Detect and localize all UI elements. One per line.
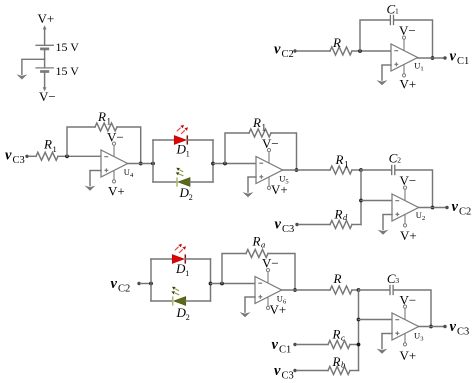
wire (352, 50, 391, 52)
svg-text:15 V: 15 V (56, 64, 80, 78)
wire feedback right (268, 254, 295, 291)
op-amp U2 (392, 186, 419, 227)
op-amp U4 (101, 142, 128, 183)
terminal (25, 155, 28, 158)
terminal (443, 56, 446, 59)
wire noninverting to ground (90, 170, 101, 172)
wire (211, 283, 256, 285)
terminal (293, 49, 296, 52)
wire output (419, 207, 446, 209)
ground (243, 177, 254, 197)
wire feedback right (117, 127, 141, 164)
svg-text:V−: V− (107, 129, 124, 144)
LED D2 (171, 287, 185, 306)
node vC2 output (452, 199, 472, 218)
wire right branch vertical (212, 140, 214, 182)
junction (431, 56, 435, 60)
svg-text:15 V: 15 V (56, 40, 80, 54)
wire noninverting to ground (248, 176, 256, 178)
svg-text:R: R (335, 152, 344, 167)
svg-text:c: c (341, 332, 345, 342)
label Rd (334, 207, 349, 223)
terminal (295, 223, 298, 226)
capacitor C2 (392, 165, 395, 175)
label U6 (277, 293, 287, 305)
resistor R1 feedback (249, 129, 271, 137)
junction (293, 288, 297, 292)
wire output (128, 163, 153, 165)
ground (378, 215, 389, 235)
junction (220, 282, 224, 286)
wire top branch (151, 258, 172, 260)
resistor Ra feedback (246, 250, 268, 258)
label R1 (335, 152, 349, 170)
svg-text:V+: V+ (271, 182, 288, 197)
op-amp U6 (255, 269, 282, 310)
svg-text:1: 1 (420, 65, 423, 72)
label Ra (252, 234, 266, 250)
svg-text:R: R (332, 35, 341, 50)
svg-text:v: v (5, 148, 12, 164)
resistor Rd (330, 221, 352, 229)
wire feedback right (396, 170, 433, 208)
wire feedback left (360, 20, 390, 51)
label D1 (175, 261, 189, 278)
node vC1 output (450, 49, 470, 68)
junction (223, 162, 227, 166)
capacitor C1 (390, 15, 393, 25)
svg-text:2: 2 (422, 215, 425, 222)
terminal (293, 369, 296, 372)
svg-text:v: v (274, 363, 281, 379)
svg-text:v: v (275, 216, 282, 232)
svg-text:2: 2 (189, 193, 193, 202)
junction (357, 343, 361, 347)
wire output (419, 326, 444, 328)
terminal (445, 206, 448, 209)
wire (213, 163, 256, 165)
svg-text:C2: C2 (118, 283, 130, 294)
wire (141, 283, 151, 285)
op-amp U5 (256, 149, 283, 190)
svg-text:v: v (274, 42, 281, 58)
wire (186, 258, 211, 260)
label D2 (179, 185, 193, 202)
wire to inverting input (359, 319, 393, 321)
svg-text:V−: V− (262, 136, 279, 151)
wire bottom branch (151, 300, 173, 302)
wire output (283, 169, 330, 171)
svg-text:R: R (252, 115, 261, 130)
terminal arrow V+ (43, 25, 47, 29)
wire output (282, 289, 330, 291)
svg-text:R: R (334, 207, 343, 222)
wire to capacitor (361, 169, 391, 171)
svg-text:R: R (252, 234, 261, 249)
wire to inverting input (361, 200, 392, 202)
svg-text:V−: V− (400, 292, 417, 307)
wire bottom branch (153, 181, 177, 183)
svg-text:V+: V+ (38, 11, 55, 26)
junction (65, 154, 69, 158)
svg-text:4: 4 (130, 172, 134, 179)
label U1 (414, 60, 423, 72)
svg-text:v: v (450, 319, 457, 335)
wire left branch vertical (152, 140, 154, 182)
svg-text:V−: V− (39, 89, 56, 104)
svg-text:C3: C3 (457, 326, 469, 337)
wire to ground (22, 58, 45, 60)
label U4 (124, 167, 134, 179)
wire feedback left (225, 133, 249, 164)
wire feedback left (222, 254, 246, 284)
svg-text:2: 2 (397, 156, 401, 165)
svg-text:1: 1 (107, 117, 112, 127)
ground (240, 297, 251, 317)
wire noninverting to ground (383, 214, 392, 216)
label D1 (176, 142, 190, 159)
label C1 (387, 1, 400, 16)
label R1 (43, 137, 57, 155)
svg-text:R: R (332, 327, 341, 342)
junction (149, 282, 153, 286)
svg-text:V+: V+ (108, 184, 125, 199)
wire (297, 344, 328, 346)
svg-text:1: 1 (262, 123, 267, 133)
svg-text:V−: V− (399, 23, 416, 38)
ground (377, 65, 388, 85)
node vC2 input (111, 276, 131, 295)
wire (190, 181, 213, 183)
wire right branch vertical (210, 259, 212, 301)
svg-text:C2: C2 (459, 206, 471, 217)
junction (359, 168, 363, 172)
label U2 (416, 210, 425, 222)
op-amp U3 (392, 305, 419, 346)
svg-text:V−: V− (262, 256, 279, 271)
svg-text:1: 1 (53, 144, 57, 154)
node vC3 input (274, 363, 294, 382)
svg-text:C3: C3 (282, 370, 294, 381)
ground (85, 171, 96, 191)
ground (17, 59, 28, 79)
svg-text:C1: C1 (457, 56, 469, 67)
wire feedback right (271, 133, 297, 170)
wire (350, 370, 359, 372)
svg-text:2: 2 (186, 313, 190, 322)
resistor R (330, 47, 352, 55)
label R1 (97, 109, 111, 127)
svg-text:a: a (261, 239, 265, 249)
svg-text:1: 1 (395, 6, 399, 15)
wire (188, 139, 214, 141)
LED D1 (174, 125, 188, 145)
junction (357, 318, 361, 322)
wire summing vertical (360, 170, 362, 225)
svg-text:R: R (97, 109, 106, 124)
wire (58, 155, 101, 157)
LED D1 (172, 244, 186, 264)
wire top branch (153, 139, 174, 141)
resistor Rc (328, 341, 350, 349)
wire left branch vertical (150, 259, 152, 301)
svg-text:V+: V+ (400, 77, 417, 92)
wire (299, 224, 330, 226)
wire feedback left (67, 127, 95, 156)
wire (352, 224, 361, 226)
junction (359, 199, 363, 203)
svg-text:1: 1 (344, 160, 349, 170)
svg-text:C3: C3 (13, 155, 25, 166)
svg-text:R: R (43, 137, 52, 152)
svg-text:v: v (272, 337, 279, 353)
resistor R1 (36, 152, 58, 160)
wire feedback right (394, 290, 431, 327)
junction (431, 206, 435, 210)
svg-text:V+: V+ (270, 302, 287, 317)
junction (209, 282, 213, 286)
svg-text:C1: C1 (279, 344, 291, 355)
wire (186, 300, 211, 302)
svg-text:v: v (452, 199, 459, 215)
svg-text:V+: V+ (400, 348, 417, 363)
wire feedback right (394, 20, 432, 58)
LED D2 (176, 168, 190, 187)
wire (29, 155, 36, 157)
wire (297, 50, 330, 52)
node vC3 input (275, 216, 295, 235)
label Rc (332, 327, 346, 343)
svg-text:1: 1 (185, 269, 189, 278)
node vC2 input (274, 42, 294, 61)
battery B2 (35, 68, 54, 72)
svg-text:R: R (333, 271, 342, 286)
wire noninverting to ground (245, 296, 255, 298)
wire output (418, 57, 444, 59)
wire noninverting to ground (382, 64, 391, 66)
battery B1 (35, 45, 54, 49)
wire (44, 29, 46, 45)
wire (44, 49, 46, 68)
label C2 (389, 151, 402, 166)
resistor R1 (330, 166, 352, 174)
wire noninverting to ground (382, 333, 392, 335)
node vC3 output (450, 319, 470, 338)
svg-text:b: b (341, 359, 345, 369)
wire (352, 169, 361, 171)
wire (297, 370, 328, 372)
junction (295, 168, 299, 172)
svg-text:v: v (450, 49, 457, 65)
junction (211, 162, 215, 166)
svg-text:R: R (332, 354, 341, 369)
ground (377, 334, 388, 354)
terminal (293, 343, 296, 346)
junction (429, 325, 433, 329)
junction (358, 49, 362, 53)
label Rb (332, 354, 346, 370)
svg-text:V−: V− (400, 173, 417, 188)
node vC3 input (5, 148, 25, 167)
junction (151, 162, 155, 166)
wire (44, 72, 46, 88)
resistor R1 feedback (95, 123, 117, 131)
svg-text:C2: C2 (282, 49, 294, 60)
svg-text:1: 1 (186, 150, 190, 159)
svg-text:V+: V+ (400, 228, 417, 243)
node vC1 input (272, 337, 292, 356)
op-amp U1 (391, 36, 418, 77)
svg-text:3: 3 (420, 335, 423, 342)
label D2 (176, 305, 190, 322)
resistor Rb (328, 367, 350, 375)
capacitor C3 (390, 285, 393, 295)
wire summing vertical (358, 290, 360, 371)
terminal (137, 282, 140, 285)
wire (350, 344, 359, 346)
terminal arrow V- (43, 87, 47, 91)
junction (357, 288, 361, 292)
svg-text:C3: C3 (282, 224, 294, 235)
wire (352, 289, 359, 291)
svg-text:v: v (111, 276, 118, 292)
label U3 (414, 330, 423, 342)
svg-text:3: 3 (395, 276, 399, 285)
resistor R (330, 286, 352, 294)
label R1 (252, 115, 266, 133)
terminal (443, 325, 446, 328)
junction (139, 162, 143, 166)
label U5 (279, 173, 288, 185)
wire to capacitor (359, 289, 390, 291)
label C3 (387, 271, 400, 286)
